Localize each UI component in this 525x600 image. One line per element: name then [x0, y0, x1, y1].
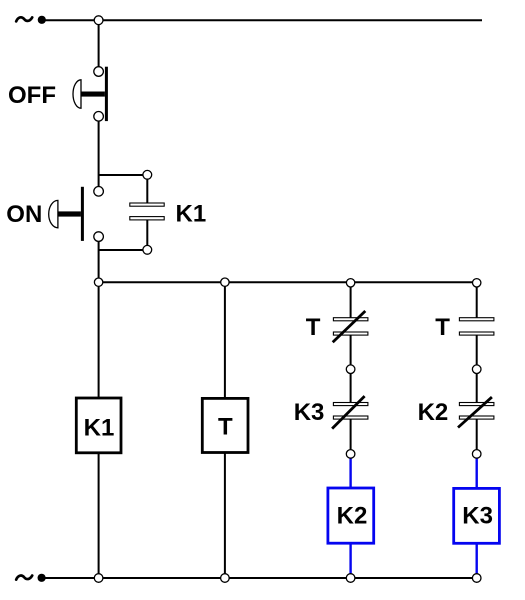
svg-text:K1: K1: [176, 200, 207, 227]
svg-text:T: T: [218, 414, 233, 441]
svg-text:K1: K1: [84, 415, 115, 442]
svg-text:T: T: [306, 314, 321, 341]
svg-text:T: T: [435, 314, 450, 341]
svg-text:K2: K2: [337, 502, 368, 529]
svg-text:K3: K3: [462, 502, 493, 529]
svg-text:OFF: OFF: [8, 82, 56, 109]
svg-text:K2: K2: [418, 399, 449, 426]
svg-text:K3: K3: [294, 399, 325, 426]
svg-text:ON: ON: [6, 201, 42, 228]
